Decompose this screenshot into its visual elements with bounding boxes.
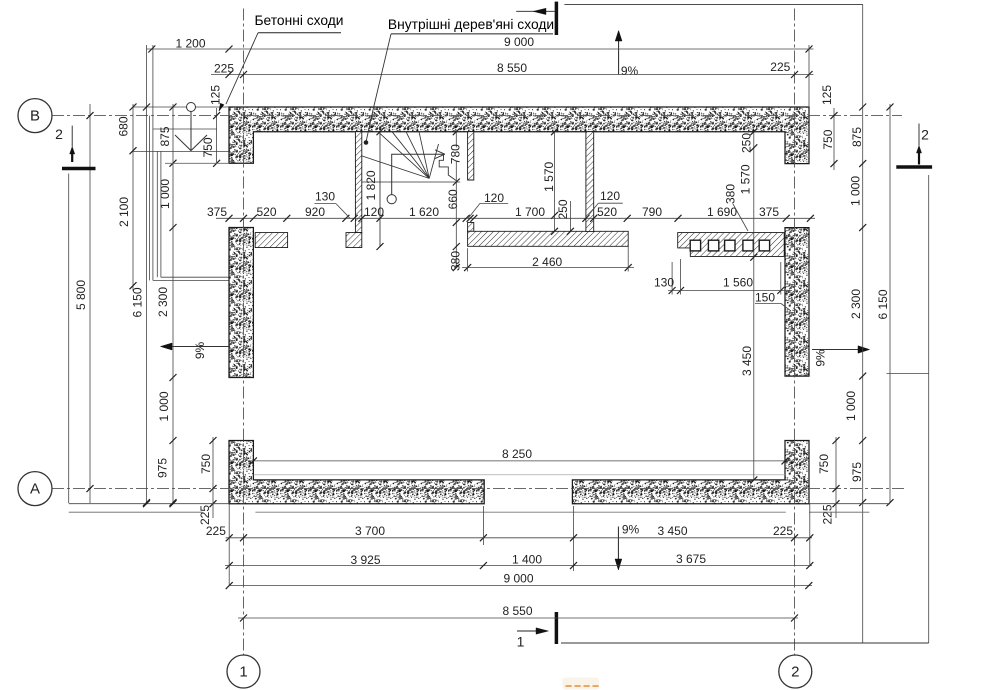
svg-text:250: 250 (740, 133, 754, 153)
svg-text:1 000: 1 000 (157, 391, 171, 421)
svg-text:120: 120 (364, 205, 384, 219)
svg-text:875: 875 (158, 126, 172, 146)
svg-text:1 000: 1 000 (849, 176, 863, 206)
svg-text:875: 875 (850, 127, 864, 147)
svg-text:1 200: 1 200 (175, 37, 205, 51)
svg-text:120: 120 (600, 189, 620, 203)
svg-text:660: 660 (446, 189, 460, 209)
svg-text:9%: 9% (621, 64, 639, 78)
svg-text:2 300: 2 300 (849, 289, 863, 319)
svg-text:1: 1 (239, 664, 247, 681)
svg-text:150: 150 (755, 291, 775, 305)
svg-text:375: 375 (207, 205, 227, 219)
svg-text:Бетонні сходи: Бетонні сходи (254, 13, 343, 28)
svg-text:680: 680 (117, 116, 131, 136)
svg-text:750: 750 (817, 454, 831, 474)
svg-text:8 250: 8 250 (502, 447, 532, 461)
svg-text:1 000: 1 000 (844, 391, 858, 421)
svg-text:1 570: 1 570 (542, 161, 556, 191)
svg-text:975: 975 (156, 458, 170, 478)
svg-text:130: 130 (654, 276, 674, 290)
svg-text:В: В (30, 108, 40, 125)
svg-text:1: 1 (517, 634, 525, 650)
svg-text:520: 520 (256, 205, 276, 219)
svg-text:1 620: 1 620 (409, 205, 439, 219)
svg-text:750: 750 (821, 129, 835, 149)
svg-text:9 000: 9 000 (504, 35, 534, 49)
svg-text:225: 225 (198, 505, 212, 525)
svg-text:130: 130 (315, 190, 335, 204)
svg-text:920: 920 (305, 205, 325, 219)
svg-text:3 700: 3 700 (355, 524, 385, 538)
svg-text:9%: 9% (814, 349, 828, 367)
svg-text:225: 225 (821, 504, 835, 524)
svg-text:А: А (30, 481, 40, 498)
svg-text:750: 750 (199, 454, 213, 474)
svg-text:225: 225 (214, 62, 234, 76)
svg-text:2 300: 2 300 (156, 287, 170, 317)
svg-text:3 450: 3 450 (740, 346, 754, 376)
svg-text:8 550: 8 550 (502, 604, 532, 618)
svg-text:3 675: 3 675 (676, 552, 706, 566)
svg-text:225: 225 (770, 60, 790, 74)
svg-text:6 150: 6 150 (131, 287, 145, 317)
svg-text:3 450: 3 450 (657, 524, 687, 538)
svg-text:975: 975 (850, 462, 864, 482)
svg-text:1 400: 1 400 (512, 553, 542, 567)
svg-text:9%: 9% (622, 523, 640, 537)
svg-text:120: 120 (484, 191, 504, 205)
svg-text:1 570: 1 570 (739, 164, 753, 194)
svg-text:750: 750 (201, 137, 215, 157)
svg-text:3 925: 3 925 (350, 553, 380, 567)
svg-text:380: 380 (448, 251, 462, 271)
svg-text:520: 520 (597, 205, 617, 219)
svg-text:2: 2 (791, 664, 799, 681)
svg-text:250: 250 (556, 199, 570, 219)
svg-text:1 700: 1 700 (515, 205, 545, 219)
svg-text:790: 790 (642, 205, 662, 219)
svg-text:1 820: 1 820 (364, 170, 378, 200)
svg-text:375: 375 (759, 205, 779, 219)
svg-text:9%: 9% (193, 341, 207, 359)
svg-text:2 100: 2 100 (117, 197, 131, 227)
svg-text:380: 380 (724, 184, 738, 204)
svg-text:2: 2 (55, 126, 63, 142)
svg-text:125: 125 (820, 85, 834, 105)
svg-text:780: 780 (448, 144, 462, 164)
svg-text:5 800: 5 800 (74, 280, 88, 310)
svg-text:6 150: 6 150 (876, 289, 890, 319)
svg-text:9 000: 9 000 (503, 572, 533, 586)
svg-text:8 550: 8 550 (497, 61, 527, 75)
svg-text:1 000: 1 000 (158, 179, 172, 209)
svg-text:1 690: 1 690 (707, 205, 737, 219)
svg-text:225: 225 (773, 524, 793, 538)
svg-text:Внутрішні дерев'яні сходи: Внутрішні дерев'яні сходи (388, 17, 554, 32)
svg-text:125: 125 (209, 85, 223, 105)
svg-text:1 560: 1 560 (723, 276, 753, 290)
svg-text:2: 2 (921, 127, 929, 143)
svg-text:2 460: 2 460 (532, 255, 562, 269)
svg-text:225: 225 (206, 524, 226, 538)
